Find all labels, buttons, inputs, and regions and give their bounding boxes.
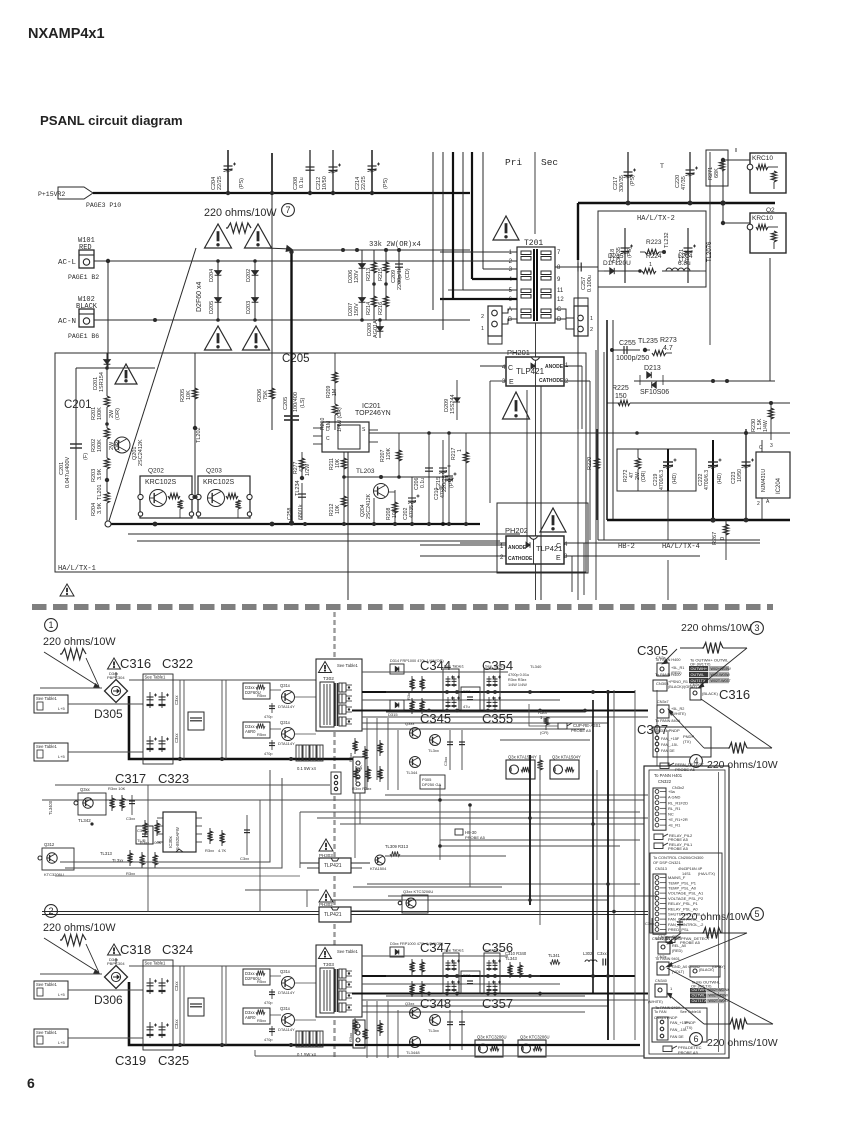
transformer T201 secondary windings	[541, 251, 551, 255]
svg-text:470p: 470p	[264, 715, 272, 719]
svg-text:C3xx: C3xx	[126, 816, 135, 821]
svg-text:220 ohms/10W: 220 ohms/10W	[680, 911, 751, 923]
wire Q202-Q203 link	[192, 496, 198, 498]
wire mid bus10	[440, 845, 620, 847]
svg-text:TL203: TL203	[356, 468, 375, 475]
svg-text:AC-N: AC-N	[58, 318, 76, 326]
wire descend x578	[577, 429, 579, 600]
svg-text:(OR): (OR)	[641, 470, 647, 482]
svg-text:Q3x KTA1504Y: Q3x KTA1504Y	[552, 755, 581, 760]
wire mid bus6	[354, 793, 356, 858]
svg-text:TLP421: TLP421	[516, 367, 545, 376]
svg-text:1M: 1M	[332, 389, 338, 396]
diode D204	[217, 261, 219, 320]
svg-text:(TX): (TX)	[683, 739, 691, 744]
svg-text:CN322: CN322	[658, 779, 672, 784]
wire mid bus9	[440, 839, 640, 841]
resistor R202 100K	[104, 428, 109, 439]
svg-text:5: 5	[754, 909, 759, 919]
resistor R206 75K	[271, 193, 273, 430]
resistor R207 120K	[398, 433, 400, 477]
wire AC-N	[94, 319, 470, 321]
svg-text:S-8520AFW: S-8520AFW	[175, 827, 180, 850]
resistor cluster ch2 mid	[354, 1018, 356, 1034]
connector CN303	[653, 680, 667, 691]
transistor Q445	[430, 1015, 441, 1026]
svg-text:CN3x: CN3x	[657, 955, 667, 959]
svg-text:Q3xx KTC3206U: Q3xx KTC3206U	[403, 889, 433, 894]
wire mid bus1	[147, 785, 149, 912]
capacitor C201 0.047u/400V	[75, 368, 77, 440]
svg-text:DTA114Y: DTA114Y	[278, 990, 295, 995]
svg-text:C318: C318	[120, 942, 151, 957]
capacitor 470p upper	[271, 703, 273, 713]
svg-text:C319: C319	[115, 1053, 146, 1068]
svg-text:NJM431U: NJM431U	[761, 469, 767, 492]
svg-text:CN3x: CN3x	[658, 935, 668, 939]
resistor R215	[385, 250, 387, 284]
wire bundle v1	[462, 152, 464, 290]
connector CN342	[657, 962, 669, 975]
wire C201 top	[76, 367, 155, 369]
wire A to conn	[502, 309, 517, 313]
svg-text:(HD): (HD)	[717, 473, 723, 484]
svg-text:C3xx: C3xx	[174, 1019, 179, 1029]
callout number 6	[690, 1033, 703, 1046]
wire mid bus5	[340, 823, 644, 825]
svg-text:A6R0: A6R0	[245, 1015, 256, 1020]
svg-text:PH302: PH302	[319, 902, 333, 907]
transformer T201 core	[517, 247, 555, 323]
svg-text:PH303: PH303	[319, 853, 333, 858]
wire +15V bus	[93, 192, 470, 194]
ic IC302 S-8520	[163, 812, 196, 852]
svg-text:A6R0: A6R0	[245, 729, 256, 734]
svg-text:100K: 100K	[97, 439, 103, 452]
svg-text:C3xx: C3xx	[597, 951, 607, 956]
svg-text:6: 6	[693, 1034, 698, 1044]
resistor R209 1M	[334, 353, 336, 400]
warning triangle (right of pair)	[245, 224, 272, 248]
svg-text:C205: C205	[283, 397, 289, 410]
connector CN321 pins	[653, 874, 666, 934]
svg-text:(PS): (PS)	[630, 175, 636, 186]
svg-text:C304: C304	[137, 828, 147, 833]
callout arrow b	[86, 658, 99, 687]
svg-text:(RED): (RED)	[672, 949, 683, 953]
svg-text:TL3400: TL3400	[48, 800, 53, 815]
svg-text:10K: 10K	[392, 508, 398, 518]
svg-text:PROBE A5: PROBE A5	[675, 767, 696, 772]
svg-text:Q31x: Q31x	[280, 1006, 291, 1011]
transistor block Q313	[78, 793, 106, 815]
svg-text:150V: 150V	[354, 303, 360, 316]
resistor 220ohm zigzag left 2	[60, 935, 86, 946]
svg-text:FAN_-15/-: FAN_-15/-	[661, 743, 679, 747]
svg-text:2200p/1k: 2200p/1k	[397, 267, 403, 290]
svg-text:R3xx R3xx: R3xx R3xx	[508, 678, 526, 682]
svg-text:D1FL20U: D1FL20U	[603, 260, 631, 267]
svg-text:1: 1	[457, 449, 463, 452]
connector table left lower	[34, 743, 68, 761]
connector T201 C-D	[574, 306, 588, 336]
connector table left lower	[34, 1029, 68, 1047]
svg-text:KRC10: KRC10	[752, 215, 773, 222]
svg-text:L+5: L+5	[58, 1040, 66, 1045]
callout diag 4b	[701, 699, 772, 748]
svg-text:(OR): (OR)	[115, 408, 121, 420]
svg-text:KTA1504: KTA1504	[370, 866, 387, 871]
transistor block Q310	[402, 895, 428, 913]
svg-text:(LS): (LS)	[300, 397, 306, 408]
svg-text:OUT1TX: OUT1TX	[692, 999, 707, 1003]
svg-text:R214: R214	[366, 302, 372, 315]
svg-text:Sec: Sec	[541, 157, 558, 168]
svg-text:C325: C325	[158, 1053, 189, 1068]
capacitor C219 4700/6.3	[667, 449, 669, 491]
wire channel2 header bus	[42, 911, 319, 913]
capacitor C212	[332, 150, 334, 193]
wire pri-sec divider	[534, 152, 536, 234]
capacitor C206 0.1u	[428, 433, 430, 524]
resistor col c1	[111, 795, 113, 811]
wire bus5	[470, 555, 700, 557]
separator vertical dashed line	[333, 612, 335, 1058]
svg-text:Q31x: Q31x	[280, 969, 291, 974]
wire sec bus	[578, 202, 775, 204]
svg-text:PAGE1 B2: PAGE1 B2	[68, 274, 99, 281]
wire ph202 left1	[420, 544, 506, 546]
svg-text:2: 2	[481, 314, 484, 320]
capacitor cluster ch2 mid	[449, 1010, 451, 1050]
connector table BLACK GRAY	[690, 966, 720, 977]
svg-text:2: 2	[590, 327, 593, 333]
svg-text:68K: 68K	[714, 168, 720, 178]
svg-text:PH201: PH201	[507, 348, 530, 357]
svg-text:See Table1: See Table1	[444, 948, 465, 953]
transistor Q444	[410, 1008, 421, 1019]
wire mid bus8	[388, 895, 657, 897]
callout number 2	[45, 905, 58, 918]
svg-text:TL344: TL344	[406, 770, 418, 775]
svg-text:(HA/L/TX): (HA/L/TX)	[698, 872, 716, 876]
svg-text:C3xx: C3xx	[645, 921, 654, 926]
relay CUP-RE-A3S1	[558, 723, 567, 729]
capacitor C217 330/35	[627, 152, 629, 203]
transistor block Q312	[42, 848, 74, 870]
svg-text:1: 1	[481, 326, 484, 332]
svg-text:470p: 470p	[264, 1038, 272, 1042]
svg-text:(PS): (PS)	[239, 178, 245, 189]
svg-text:C: C	[326, 436, 330, 442]
svg-text:R5xx: R5xx	[257, 979, 266, 984]
svg-text:TL3xx: TL3xx	[428, 1028, 439, 1033]
svg-text:PAGE1 B6: PAGE1 B6	[68, 333, 99, 340]
svg-text:PROBE A5: PROBE A5	[668, 846, 689, 851]
svg-text:CN3x: CN3x	[656, 656, 666, 660]
svg-text:HA/L/TX-2: HA/L/TX-2	[637, 215, 675, 223]
resistor R217	[465, 433, 467, 524]
connector CN340	[655, 984, 667, 997]
svg-text:7: 7	[285, 205, 290, 215]
svg-text:See Table1: See Table1	[337, 949, 359, 954]
svg-text:RL_R1F2D: RL_R1F2D	[668, 800, 688, 805]
callout arrow to node	[266, 248, 291, 249]
resistor R213	[373, 250, 375, 284]
resistor R272 47 2W(OR)	[635, 458, 640, 469]
diode pack D315	[390, 700, 404, 710]
svg-text:D2F60 x4: D2F60 x4	[196, 282, 203, 312]
svg-text:See Table1: See Table1	[145, 961, 167, 966]
svg-text:D213: D213	[644, 365, 661, 372]
capacitor C257 0.100u	[555, 266, 598, 268]
block P305 DP250	[420, 775, 445, 789]
diode pack D314	[390, 664, 404, 674]
connector t302 bottom	[353, 757, 365, 793]
svg-text:11: 11	[557, 288, 564, 294]
svg-text:CN3x7: CN3x7	[657, 700, 669, 704]
svg-text:NC: NC	[668, 812, 674, 817]
svg-text:TL202: TL202	[196, 427, 202, 443]
svg-text:22/25: 22/25	[217, 176, 223, 190]
diode D201 1SR154	[106, 353, 108, 368]
warning triangle below bridge right	[243, 326, 270, 350]
capacitor 470p upper	[271, 989, 273, 999]
block HA/L/TX-1 box	[55, 353, 586, 572]
svg-text:+E_R1: +E_R1	[668, 823, 681, 828]
svg-text:(CR): (CR)	[540, 730, 549, 735]
diode D206	[361, 250, 363, 284]
svg-text:D202: D202	[246, 269, 252, 282]
svg-text:R5xx: R5xx	[257, 732, 266, 737]
rectifier D306	[105, 966, 128, 989]
wire long v a	[432, 152, 434, 310]
svg-text:Q3xx: Q3xx	[405, 721, 414, 726]
svg-text:C3xx: C3xx	[174, 981, 179, 991]
svg-text:T: T	[660, 163, 664, 170]
svg-text:R215: R215	[378, 268, 384, 281]
warning triangle below bridge left	[205, 326, 232, 350]
svg-text:3: 3	[770, 443, 773, 449]
wire mid bus2	[259, 800, 261, 912]
capacitor cluster mid	[188, 998, 204, 1016]
svg-text:See Table1: See Table1	[337, 663, 359, 668]
svg-text:IC201: IC201	[362, 403, 381, 410]
svg-text:IC30x: IC30x	[168, 835, 173, 848]
svg-text:47/35: 47/35	[409, 505, 415, 518]
junction dots ch1 buses	[445, 690, 449, 694]
wire return L 270	[60, 770, 270, 862]
svg-text:PROBE A5: PROBE A5	[465, 835, 486, 840]
resistor R208 10K	[394, 490, 396, 524]
svg-text:CN314 PNDP: CN314 PNDP	[655, 728, 680, 733]
wire long v c	[452, 152, 454, 299]
svg-text:HA/L/TX-4: HA/L/TX-4	[662, 543, 700, 551]
svg-text:DTA114Y: DTA114Y	[278, 704, 295, 709]
wire bridge left	[40, 687, 102, 689]
svg-text:To PANN H401: To PANN H401	[654, 773, 683, 778]
wire return L 282	[65, 778, 282, 868]
svg-text:10/50: 10/50	[737, 469, 743, 482]
relay PFBL ch2	[663, 1046, 672, 1052]
svg-text:OUTWH+: OUTWH+	[691, 667, 708, 671]
svg-text:Q3x KTA1504Y: Q3x KTA1504Y	[508, 755, 537, 760]
svg-text:1/2W: 1/2W	[305, 464, 311, 476]
svg-text:OF (W1TX): OF (W1TX)	[690, 662, 711, 667]
wire AC-L	[94, 260, 470, 262]
separator dashed line	[32, 604, 773, 610]
wire long v b	[442, 152, 444, 330]
block main connector box	[644, 766, 729, 1058]
capacitor C208	[309, 150, 311, 193]
svg-text:TL343: TL343	[505, 956, 518, 961]
wire control bottom	[55, 875, 300, 877]
svg-text:0.047u/400V: 0.047u/400V	[65, 456, 71, 488]
svg-text:C205: C205	[282, 353, 310, 365]
svg-text:100K: 100K	[97, 407, 103, 420]
svg-text:Q3x KTC3206U: Q3x KTC3206U	[477, 1035, 507, 1040]
svg-text:See Table1: See Table1	[485, 948, 506, 953]
svg-text:TL201: TL201	[97, 484, 103, 500]
transistor Q314	[282, 691, 295, 704]
wire descent to bottom 1	[526, 390, 528, 546]
optocoupler PC444	[475, 1040, 503, 1057]
wire HA/L/TX-2 out	[598, 270, 604, 272]
svg-text:FAN DE: FAN DE	[670, 1035, 684, 1039]
capacitor snubber bank 0.1 5W x4	[296, 1031, 302, 1047]
diode block lower	[243, 1008, 270, 1024]
diode D207	[361, 284, 363, 320]
svg-text:CN340: CN340	[655, 979, 667, 983]
svg-text:2SC2412K: 2SC2412K	[138, 439, 144, 466]
svg-text:D: D	[326, 427, 330, 433]
connector CN300	[657, 663, 669, 676]
svg-text:75K: 75K	[263, 390, 269, 400]
svg-text:(F): (F)	[83, 453, 89, 460]
connector P+15VR2 PAGE3 P10	[58, 187, 93, 199]
svg-text:C348: C348	[420, 996, 451, 1011]
wire c344 buses	[386, 671, 508, 673]
svg-text:See Table1: See Table1	[444, 664, 465, 669]
wire mid bus row795	[385, 794, 648, 796]
svg-text:FAN DE: FAN DE	[661, 749, 675, 753]
svg-text:C: C	[557, 307, 562, 313]
wire y478 link	[345, 476, 448, 478]
capacitor C204	[227, 150, 229, 193]
diode block lower	[243, 722, 270, 738]
mid box Q372	[461, 687, 480, 710]
capacitor C222 4700/6.3	[712, 440, 714, 520]
svg-text:R220: R220	[587, 457, 593, 470]
resistor R201 100K	[106, 368, 108, 420]
warning triangle C318	[108, 944, 121, 955]
svg-text:R3xx: R3xx	[205, 848, 214, 853]
node TL202	[193, 426, 197, 430]
svg-text:E: E	[509, 379, 514, 386]
svg-text:R3xx: R3xx	[348, 753, 353, 762]
wire bridge top bus	[115, 672, 117, 678]
capacitor C218 330/35	[624, 228, 626, 283]
svg-text:C201: C201	[64, 399, 92, 411]
callout number 4	[690, 755, 703, 768]
svg-text:(BLACK): (BLACK)	[702, 691, 718, 696]
svg-text:R3xx R3xx: R3xx R3xx	[352, 786, 371, 791]
svg-text:See Table1: See Table1	[36, 696, 58, 701]
connector t303 bottom	[353, 1020, 365, 1048]
diode D202	[254, 261, 256, 320]
wire pin2 feed	[430, 260, 517, 262]
svg-text:FAN_-15/-: FAN_-15/-	[670, 1028, 688, 1032]
svg-text:D314 FRP1000 470k 1/4W(OR): D314 FRP1000 470k 1/4W(OR)	[390, 659, 444, 663]
svg-text:R5xx: R5xx	[257, 693, 266, 698]
warning triangle near D201	[115, 364, 137, 384]
wire B to conn	[502, 319, 517, 324]
transistor block KRC10 upper	[750, 153, 786, 193]
svg-text:OUTWL: OUTWL	[691, 673, 705, 677]
svg-text:Pri: Pri	[505, 157, 522, 168]
svg-text:0.1u: 0.1u	[299, 177, 305, 188]
wire bundle v3	[482, 152, 484, 269]
svg-text:TL235: TL235	[638, 338, 658, 345]
capacitor bank C344	[443, 669, 459, 710]
capacitor bank C347	[443, 953, 459, 994]
svg-text:+E_R1+2R: +E_R1+2R	[668, 817, 688, 822]
svg-text:10K: 10K	[335, 458, 341, 468]
callout number 7	[282, 204, 295, 217]
svg-text:33k 2W(OR)x4: 33k 2W(OR)x4	[369, 241, 421, 249]
transformer T303	[316, 945, 362, 1017]
wire vcols gray	[179, 966, 181, 1045]
svg-text:1: 1	[649, 262, 652, 268]
wire mid verticals	[439, 785, 441, 860]
capacitor 470p lower	[271, 740, 273, 750]
wire mid bus7	[367, 883, 640, 885]
svg-text:FAN_+15F: FAN_+15F	[661, 737, 680, 741]
wire mid bus3	[300, 811, 640, 813]
callout diag 5a	[669, 933, 681, 942]
capacitor bank C322	[143, 674, 173, 764]
wire table feeds	[68, 989, 143, 991]
wire ch1 mid verticals	[366, 718, 368, 790]
svg-text:CN313: CN313	[655, 867, 667, 871]
diode block upper	[243, 969, 270, 985]
junction dots ch2 buses	[445, 974, 449, 978]
svg-text:TL340: TL340	[530, 664, 542, 669]
wire mid bus row900	[330, 899, 607, 901]
transformer T201 primary windings	[521, 251, 531, 255]
connector CN322 pins	[653, 788, 666, 830]
wire snubber top	[293, 249, 470, 251]
svg-text:D306: D306	[94, 993, 123, 1007]
capacitor col c5	[246, 815, 248, 855]
connector T201 A-B	[488, 306, 502, 336]
svg-text:D: D	[557, 317, 562, 323]
svg-text:Q3xx: Q3xx	[405, 1001, 414, 1006]
block DSP connector box	[650, 853, 722, 933]
svg-text:+5a: +5a	[668, 789, 676, 794]
svg-text:Q203: Q203	[206, 468, 222, 475]
connector table left upper	[34, 981, 68, 999]
svg-text:3.9K: 3.9K	[97, 502, 103, 514]
resistor col pre-bank	[411, 676, 413, 692]
svg-text:C3xx: C3xx	[443, 757, 448, 766]
svg-text:See Table1: See Table1	[145, 675, 167, 680]
svg-text:1000p/250: 1000p/250	[616, 355, 649, 362]
svg-text:RL_R1: RL_R1	[668, 806, 681, 811]
wire mid bus row856	[385, 855, 506, 857]
svg-text:TL3448: TL3448	[406, 1050, 420, 1055]
svg-text:C316: C316	[120, 656, 151, 671]
